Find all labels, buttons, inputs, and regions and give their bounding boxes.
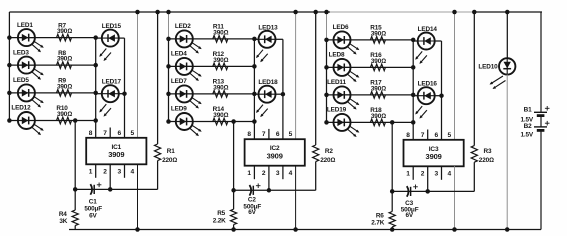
wire pin5 line group 2 bbox=[295, 12, 297, 139]
resistor R5 2.2K bbox=[213, 209, 237, 224]
junction pin4 ground rail group 1 bbox=[135, 227, 140, 232]
wire LED18 cathode junction bbox=[275, 93, 283, 95]
svg-text:390Ω: 390Ω bbox=[213, 57, 228, 64]
junction pin5 line top rail group 2 bbox=[293, 10, 298, 15]
svg-text:LED8: LED8 bbox=[329, 52, 345, 59]
wire pin5 line group 3 bbox=[454, 12, 456, 140]
svg-text:6: 6 bbox=[118, 130, 122, 137]
svg-text:LED15: LED15 bbox=[102, 23, 122, 30]
wire drop line group 1 bbox=[74, 121, 76, 211]
junction R1 top rail bbox=[155, 10, 160, 15]
wire LED16 anode stub bbox=[413, 95, 418, 97]
junction bus group 3 at top rail bbox=[324, 10, 329, 15]
junction pin2 node group 2 bbox=[267, 188, 272, 193]
wire row 2 group 1 bbox=[9, 64, 95, 66]
wire node group 3 bbox=[392, 190, 474, 192]
svg-text:B2: B2 bbox=[524, 123, 532, 130]
svg-text:4: 4 bbox=[448, 171, 452, 178]
wire LED10 anode from top rail bbox=[506, 12, 508, 58]
op-amp IC3 3909 flasher IC bbox=[404, 140, 464, 167]
svg-text:6V: 6V bbox=[406, 212, 414, 219]
svg-text:7: 7 bbox=[262, 131, 266, 138]
resistor R2 220ohm bbox=[313, 12, 336, 190]
junction pin8-line row 3 group 2 bbox=[252, 92, 257, 97]
wire row 2 group 3 bbox=[327, 66, 414, 68]
wire pin4 to ground rail IC3 bbox=[454, 166, 456, 229]
junction pin4 ground rail group 3 bbox=[452, 227, 457, 232]
svg-text:390Ω: 390Ω bbox=[371, 85, 386, 92]
junction pin8-line row 3 group 3 bbox=[411, 93, 416, 98]
wire row 4 group 3 bbox=[327, 121, 414, 123]
LED LED17 bbox=[99, 79, 121, 117]
junction pin8-line row 4 group 1 bbox=[93, 118, 98, 123]
op-amp IC2 3909 flasher IC bbox=[245, 139, 305, 166]
wire pin8 line group 1 bbox=[95, 38, 97, 138]
resistor R3 220ohm bbox=[471, 12, 494, 191]
junction LED10 top rail bbox=[505, 10, 510, 15]
junction drop line row4 group 1 bbox=[73, 118, 78, 123]
junction pin5 line top rail group 3 bbox=[452, 10, 457, 15]
svg-text:LED19: LED19 bbox=[327, 107, 347, 114]
junction pin8-line row 2 group 3 bbox=[411, 65, 416, 70]
resistor R15 390ohm bbox=[370, 25, 386, 44]
wire pin4 to ground rail IC2 bbox=[295, 166, 297, 230]
LED LED5 bbox=[13, 77, 44, 107]
LED LED19 bbox=[327, 107, 359, 137]
svg-text:5: 5 bbox=[448, 132, 452, 139]
wire row 3 group 2 bbox=[169, 93, 255, 95]
wire LED13 anode stub bbox=[254, 38, 258, 40]
wire left anode bus group 3 bbox=[326, 12, 328, 40]
svg-text:390Ω: 390Ω bbox=[213, 84, 228, 91]
resistor R16 390ohm bbox=[370, 52, 386, 71]
svg-text:R5: R5 bbox=[217, 210, 225, 217]
svg-text:LED18: LED18 bbox=[258, 79, 278, 86]
battery B1 1.5V bbox=[520, 106, 549, 123]
junction bus row 3 group 2 bbox=[166, 92, 171, 97]
junction bus row 1 group 1 bbox=[7, 35, 12, 40]
LED LED11 bbox=[327, 79, 359, 109]
svg-text:390Ω: 390Ω bbox=[371, 30, 386, 37]
junction node drop line group 3 bbox=[390, 189, 395, 194]
junction pin8-line row 4 group 3 bbox=[411, 120, 416, 125]
svg-text:2: 2 bbox=[262, 170, 266, 177]
junction pin8-line row 3 group 1 bbox=[93, 91, 98, 96]
svg-text:6: 6 bbox=[276, 131, 280, 138]
op-amp IC1 3909 flasher IC bbox=[86, 138, 146, 165]
junction pin8-line row 1 group 2 bbox=[252, 37, 257, 42]
svg-text:R2: R2 bbox=[325, 148, 333, 155]
wire row 3 group 3 bbox=[327, 94, 414, 96]
svg-text:LED1: LED1 bbox=[17, 22, 33, 29]
LED LED4 bbox=[171, 51, 202, 81]
svg-text:390Ω: 390Ω bbox=[57, 56, 72, 63]
junction bus row 4 group 1 bbox=[7, 118, 12, 123]
svg-text:LED12: LED12 bbox=[11, 105, 31, 112]
junction bus row 3 group 3 bbox=[324, 93, 329, 98]
wire row 1 group 2 bbox=[169, 38, 255, 40]
svg-text:LED10: LED10 bbox=[478, 64, 498, 71]
svg-text:3909: 3909 bbox=[267, 151, 283, 160]
junction drop line row4 group 3 bbox=[390, 120, 395, 125]
junction drop line ground rail group 2 bbox=[231, 227, 236, 232]
wire pin6 line group 1 bbox=[124, 38, 126, 138]
svg-text:6: 6 bbox=[435, 132, 439, 139]
junction pin8-line row 2 group 1 bbox=[93, 63, 98, 68]
resistor R18 390ohm bbox=[370, 107, 386, 126]
LED LED12 bbox=[11, 105, 43, 135]
resistor R8 390ohm bbox=[57, 50, 73, 69]
svg-text:8: 8 bbox=[247, 131, 251, 138]
svg-text:4: 4 bbox=[289, 170, 293, 177]
junction pin6 line LED16 bbox=[439, 93, 444, 98]
resistor R4 3K bbox=[59, 210, 78, 225]
LED LED13 bbox=[256, 24, 278, 62]
LED LED16 bbox=[415, 81, 437, 119]
svg-text:8: 8 bbox=[406, 132, 410, 139]
wire LED18 anode stub bbox=[254, 93, 258, 95]
wire pin1 stub IC2 bbox=[253, 166, 255, 180]
svg-text:8: 8 bbox=[89, 130, 93, 137]
svg-text:R1: R1 bbox=[167, 148, 175, 155]
svg-text:2: 2 bbox=[421, 171, 425, 178]
junction pin8-line row 1 group 1 bbox=[93, 35, 98, 40]
junction pin5 line top rail group 1 bbox=[135, 10, 140, 15]
wire pin6 line group 3 bbox=[441, 41, 443, 140]
resistor R6 2.7K bbox=[371, 212, 395, 227]
svg-text:1: 1 bbox=[406, 171, 410, 178]
svg-text:1.5V: 1.5V bbox=[520, 132, 533, 139]
svg-text:LED13: LED13 bbox=[258, 24, 278, 31]
wire LED17 anode stub bbox=[96, 93, 102, 95]
svg-text:390Ω: 390Ω bbox=[371, 113, 386, 120]
junction pin2 node group 1 bbox=[108, 187, 113, 192]
svg-text:LED17: LED17 bbox=[102, 79, 122, 86]
junction pin8-line row 4 group 2 bbox=[252, 119, 257, 124]
LED LED2 bbox=[175, 23, 202, 53]
wire pin1 stub IC3 bbox=[412, 166, 414, 180]
junction pin6 line LED17 bbox=[122, 91, 127, 96]
svg-text:LED4: LED4 bbox=[171, 51, 187, 58]
wire LED16 cathode junction bbox=[435, 95, 442, 97]
wire pin7 stub group 2 bbox=[268, 129, 270, 139]
LED LED9 bbox=[171, 106, 202, 136]
svg-text:390Ω: 390Ω bbox=[57, 28, 72, 35]
junction LED10 ground rail bbox=[505, 227, 510, 232]
svg-text:390Ω: 390Ω bbox=[213, 29, 228, 36]
wire pin2 to node IC3 bbox=[427, 166, 429, 191]
wire row 2 group 2 bbox=[169, 65, 255, 67]
svg-text:R3: R3 bbox=[484, 148, 492, 155]
resistor R7 390ohm bbox=[57, 22, 73, 41]
svg-text:3: 3 bbox=[118, 169, 122, 176]
svg-text:6V: 6V bbox=[248, 209, 256, 216]
wire left anode bus group 2 bbox=[168, 12, 170, 39]
wire LED13 cathode to pin6 line bbox=[275, 38, 283, 40]
svg-text:3909: 3909 bbox=[426, 152, 442, 161]
wire top supply rail right segment bbox=[473, 11, 542, 13]
wire top supply rail bbox=[9, 11, 330, 13]
svg-text:500μF: 500μF bbox=[84, 206, 102, 213]
svg-text:2: 2 bbox=[103, 169, 107, 176]
junction bus row 4 group 3 bbox=[324, 120, 329, 125]
svg-text:3K: 3K bbox=[59, 218, 67, 225]
LED LED7 bbox=[171, 78, 202, 108]
svg-text:4: 4 bbox=[131, 169, 135, 176]
svg-text:390Ω: 390Ω bbox=[57, 83, 72, 90]
svg-text:B1: B1 bbox=[524, 106, 532, 113]
svg-text:LED5: LED5 bbox=[13, 77, 29, 84]
wire pin1 stub IC1 bbox=[95, 164, 97, 178]
svg-text:R4: R4 bbox=[59, 211, 67, 218]
wire row 1 group 3 bbox=[327, 39, 414, 41]
junction bus row 1 group 2 bbox=[166, 37, 171, 42]
junction pin6 line LED18 bbox=[281, 92, 286, 97]
junction drop line ground rail group 3 bbox=[390, 227, 395, 232]
resistor R12 390ohm bbox=[213, 51, 229, 70]
junction R2 top rail bbox=[313, 10, 318, 15]
wire left anode bus group 1 bbox=[8, 12, 10, 121]
svg-text:2.7K: 2.7K bbox=[371, 220, 384, 227]
svg-text:1: 1 bbox=[247, 170, 251, 177]
svg-text:LED16: LED16 bbox=[418, 81, 438, 88]
capacitor C1 500uF bbox=[84, 183, 102, 220]
junction bus row 1 group 3 bbox=[324, 38, 329, 43]
junction R3 top rail bbox=[472, 10, 477, 15]
wire pin3 stub IC3 bbox=[441, 166, 443, 180]
wire pin7 stub group 3 bbox=[427, 130, 429, 140]
svg-text:390Ω: 390Ω bbox=[57, 111, 72, 118]
wire drop line group 2 bbox=[233, 122, 235, 210]
LED LED1 bbox=[17, 22, 44, 52]
svg-text:3909: 3909 bbox=[108, 150, 124, 159]
wire LED14 cathode to pin6 line bbox=[435, 40, 442, 42]
resistor R11 390ohm bbox=[213, 24, 229, 43]
junction bus row 2 group 1 bbox=[7, 63, 12, 68]
wire pin3 stub IC1 bbox=[124, 164, 126, 178]
LED LED15 bbox=[99, 23, 121, 61]
resistor R17 390ohm bbox=[370, 80, 386, 99]
wire LED15 anode stub bbox=[96, 37, 102, 39]
wire pin6 line group 2 bbox=[282, 39, 284, 139]
svg-text:LED11: LED11 bbox=[327, 79, 346, 86]
LED LED3 bbox=[13, 49, 44, 79]
wire row 1 group 1 bbox=[9, 37, 95, 39]
wire row 4 group 2 bbox=[169, 121, 255, 123]
junction bus row 4 group 2 bbox=[166, 119, 171, 124]
wire LED14 anode stub bbox=[413, 40, 418, 42]
wire right battery branch lower bbox=[540, 131, 542, 230]
svg-text:LED6: LED6 bbox=[333, 24, 349, 31]
wire node group 2 bbox=[234, 189, 316, 191]
wire pin7 stub group 1 bbox=[109, 128, 111, 138]
resistor R13 390ohm bbox=[213, 79, 229, 98]
junction bus row 2 group 3 bbox=[324, 65, 329, 70]
wire row 3 group 1 bbox=[9, 92, 95, 94]
wire pin4 to ground rail IC1 bbox=[137, 164, 139, 229]
svg-text:5: 5 bbox=[289, 131, 293, 138]
wire pin5 line group 1 bbox=[137, 12, 139, 138]
svg-text:390Ω: 390Ω bbox=[371, 58, 386, 65]
wire pin2 to node IC1 bbox=[109, 164, 111, 189]
LED LED6 bbox=[333, 24, 360, 54]
wire top supply rail faded segment bbox=[330, 11, 473, 13]
junction pin4 ground rail group 2 bbox=[293, 227, 298, 232]
junction pin2 node group 3 bbox=[425, 189, 430, 194]
battery B2 1.5V bbox=[520, 121, 549, 139]
resistor R14 390ohm bbox=[213, 106, 229, 125]
LED LED18 bbox=[256, 79, 278, 117]
junction bus row 3 group 1 bbox=[7, 91, 12, 96]
svg-text:LED7: LED7 bbox=[171, 78, 187, 85]
resistor R10 390ohm bbox=[56, 105, 72, 124]
svg-text:LED3: LED3 bbox=[13, 49, 29, 56]
wire between battery cells bbox=[540, 116, 542, 127]
svg-text:220Ω: 220Ω bbox=[479, 157, 494, 164]
wire right battery branch upper bbox=[540, 12, 542, 112]
svg-text:LED9: LED9 bbox=[171, 106, 187, 113]
wire pin8 line group 2 bbox=[253, 39, 255, 139]
capacitor C3 500uF bbox=[401, 185, 419, 220]
LED LED8 bbox=[329, 52, 360, 82]
wire drop line group 3 bbox=[391, 122, 393, 211]
LED LED10 bbox=[478, 58, 515, 89]
wire LED15 cathode to pin6 line bbox=[119, 37, 125, 39]
svg-text:7: 7 bbox=[421, 132, 425, 139]
wire row 4 group 1 bbox=[9, 120, 95, 122]
wire pin8 line group 3 bbox=[412, 40, 414, 140]
svg-text:6V: 6V bbox=[89, 213, 97, 220]
svg-text:3: 3 bbox=[276, 170, 280, 177]
junction bus group 2 at top rail bbox=[166, 10, 171, 15]
junction pin8-line row 1 group 3 bbox=[411, 38, 416, 43]
junction node drop line group 1 bbox=[73, 187, 78, 192]
svg-text:2.2K: 2.2K bbox=[213, 217, 226, 224]
wire LED17 cathode junction bbox=[119, 93, 125, 95]
capacitor C2 500uF bbox=[243, 183, 261, 216]
LED LED14 bbox=[415, 26, 437, 64]
wire pin2 to node IC2 bbox=[268, 166, 270, 191]
svg-text:1: 1 bbox=[89, 169, 93, 176]
junction node drop line group 2 bbox=[231, 188, 236, 193]
junction pin8-line row 2 group 2 bbox=[252, 64, 257, 69]
wire node group 1 bbox=[75, 188, 157, 190]
svg-text:220Ω: 220Ω bbox=[162, 157, 177, 164]
wire bottom ground rail bbox=[69, 229, 541, 231]
svg-text:7: 7 bbox=[103, 130, 107, 137]
svg-text:3: 3 bbox=[435, 171, 439, 178]
wire pin3 stub IC2 bbox=[282, 166, 284, 180]
resistor R1 220ohm bbox=[155, 12, 178, 189]
wire LED10 cathode to ground rail bbox=[506, 75, 508, 230]
svg-text:LED2: LED2 bbox=[175, 23, 191, 30]
svg-text:220Ω: 220Ω bbox=[320, 157, 335, 164]
junction drop line row4 group 2 bbox=[231, 119, 236, 124]
svg-text:R6: R6 bbox=[376, 212, 384, 219]
junction bus row 2 group 2 bbox=[166, 64, 171, 69]
svg-text:C1: C1 bbox=[89, 198, 97, 205]
resistor R9 390ohm bbox=[57, 78, 73, 97]
svg-text:5: 5 bbox=[131, 130, 135, 137]
svg-text:390Ω: 390Ω bbox=[213, 112, 228, 119]
svg-text:LED14: LED14 bbox=[418, 26, 438, 33]
